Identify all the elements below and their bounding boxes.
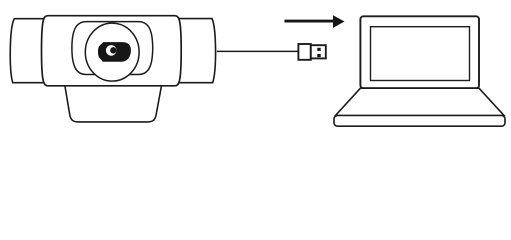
webcam right wing xyxy=(178,19,216,83)
arrow xyxy=(285,15,345,28)
usb cable wire xyxy=(217,50,299,52)
webcam lens plate xyxy=(72,22,153,75)
laptop keyboard deck xyxy=(336,88,505,115)
webcam left wing xyxy=(10,19,44,83)
laptop base slab xyxy=(334,116,505,127)
webcam lens pupil xyxy=(110,47,116,53)
usb pin hole upper xyxy=(317,48,320,51)
laptop display panel xyxy=(371,27,470,81)
laptop screen xyxy=(360,16,479,88)
usb plug connector xyxy=(311,45,326,58)
usb pin hole lower xyxy=(317,54,320,57)
webcam lens highlight disc xyxy=(106,45,117,56)
webcam body xyxy=(42,16,182,86)
usb plug body xyxy=(298,44,310,60)
webcam lens ring xyxy=(85,23,139,81)
webcam mount clip xyxy=(65,85,162,122)
webcam lens icon xyxy=(98,42,131,62)
